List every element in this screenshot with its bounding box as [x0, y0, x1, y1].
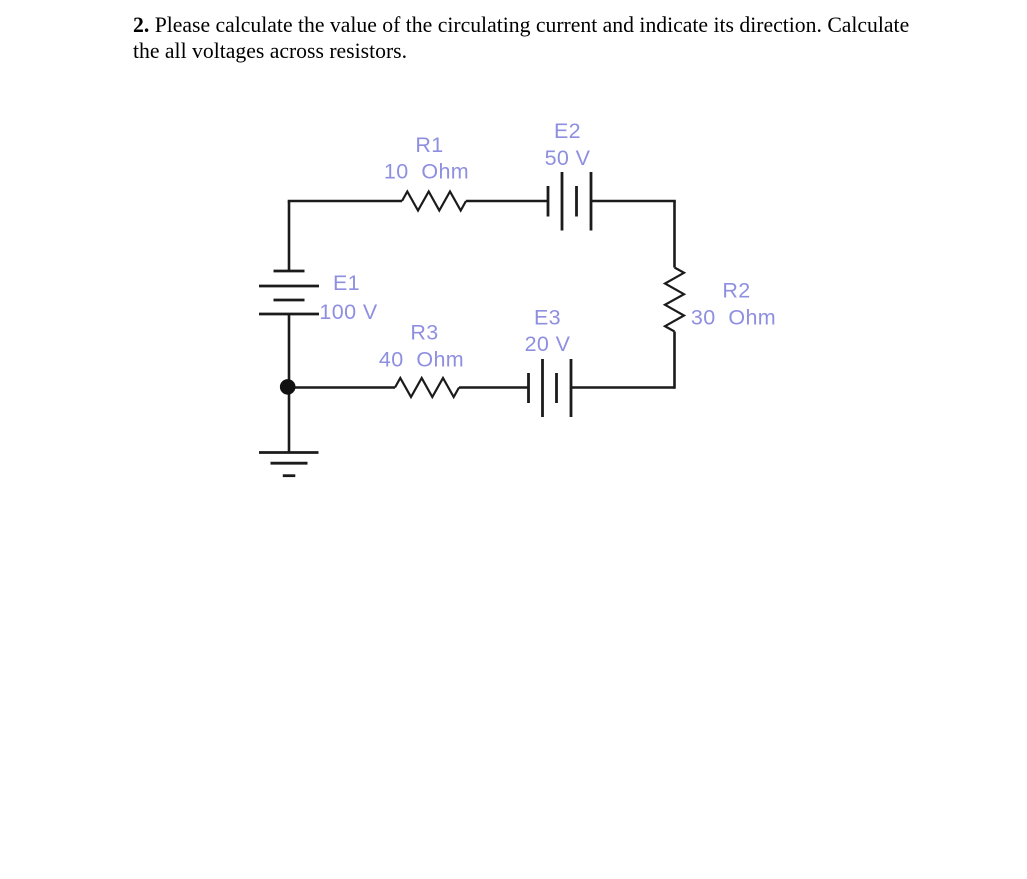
node A junction dot	[280, 379, 296, 395]
wire R3 to node A	[288, 386, 395, 389]
wire left vertical top (corner to E1)	[288, 201, 291, 271]
svg-text:100 V: 100 V	[319, 300, 377, 324]
svg-text:R1: R1	[415, 133, 443, 157]
svg-text:R3: R3	[410, 321, 438, 345]
svg-text:20 V: 20 V	[525, 332, 571, 356]
resistor R1	[402, 192, 466, 211]
wire node A to ground	[288, 388, 291, 453]
svg-text:10 Ohm: 10 Ohm	[384, 160, 469, 184]
battery E3	[529, 359, 572, 417]
svg-text:50 V: 50 V	[545, 146, 591, 170]
resistor R2	[665, 268, 684, 332]
wire R1 to E2	[466, 200, 548, 203]
wire top-left horizontal (left corner to R1)	[289, 201, 402, 202]
svg-text:E3: E3	[534, 306, 561, 330]
svg-text:R2: R2	[722, 279, 750, 303]
svg-text:40 Ohm: 40 Ohm	[379, 348, 464, 372]
wire bottom-right (corner to E3)	[571, 386, 675, 389]
wire E1 to node A	[288, 314, 291, 388]
battery E1	[259, 271, 319, 314]
svg-text:30 Ohm: 30 Ohm	[691, 306, 776, 330]
wire E3 to R3	[459, 386, 529, 389]
svg-text:E2: E2	[554, 119, 581, 143]
battery E2	[548, 172, 591, 231]
svg-text:E1: E1	[333, 271, 360, 295]
wire E2 to top-right corner	[591, 201, 675, 202]
resistor R3	[395, 378, 459, 397]
ground	[259, 453, 319, 476]
wire right vertical upper (corner to R2)	[673, 201, 676, 268]
wire right vertical lower (R2 to bottom-right corner)	[673, 332, 675, 388]
